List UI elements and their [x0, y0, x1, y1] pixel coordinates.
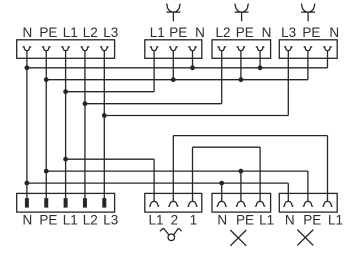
wire lamp1 PE stem: [172, 51, 174, 80]
svg-text:PE: PE: [302, 25, 320, 40]
wire switch output 1 horizontal: [193, 146, 261, 148]
lamp block 1 labels L1 PE N: [150, 25, 205, 40]
svg-text:PE: PE: [236, 213, 254, 228]
lamp block 2 terminal contact L2: [218, 47, 226, 51]
feed-in terminal contact L2: [81, 47, 89, 51]
wire lamp3 N stem: [327, 51, 329, 68]
wire lamp3 L3 stem: [287, 51, 289, 116]
feed-in terminal block (top-left box): [17, 40, 115, 59]
junction L2 bus / feed L2: [83, 101, 88, 106]
socket outlet symbol X2 below socket block 2: [297, 230, 313, 246]
lamp block 2 labels L2 PE N: [215, 25, 271, 40]
wire socket2 N stem: [287, 183, 289, 201]
lamp outlet block 1 (box): [145, 40, 202, 59]
socket block 1 terminal contact L1: [255, 201, 265, 206]
socket block 2 terminal contact N: [284, 201, 294, 206]
socket block 2 labels N PE L1: [285, 213, 343, 228]
wire socket1 L1 stem: [259, 147, 261, 201]
svg-text:N: N: [23, 25, 33, 40]
luminaire symbol E2 above lamp block 2: [235, 4, 249, 22]
junction L3 bus / feed L3: [102, 113, 107, 118]
lamp outlet block 3 (box): [279, 40, 337, 59]
socket block 2 terminal contact L1: [323, 201, 333, 206]
wire feed N vertical: [26, 51, 28, 198]
lamp block 3 terminal contact L3: [284, 47, 292, 51]
svg-text:N: N: [329, 25, 339, 40]
series switch symbol S1 below switch block: [160, 228, 182, 241]
wire feed L2 vertical: [84, 51, 86, 198]
lamp block 1 terminal contact N: [189, 47, 197, 51]
svg-text:N: N: [23, 213, 33, 228]
plug pin L1: [64, 198, 68, 208]
switch block terminal contact L1: [149, 201, 159, 206]
wire lower L1 bus horizontal: [66, 158, 155, 160]
lamp block 3 terminal contact PE: [304, 47, 312, 51]
junction N bus / feed N: [25, 65, 30, 70]
wire lamp2 PE stem: [240, 51, 242, 80]
lamp outlet block 2 (box): [212, 40, 271, 59]
wire N bus horizontal: [27, 67, 328, 69]
wire lower PE bus horizontal: [46, 170, 308, 172]
svg-text:L1: L1: [63, 213, 78, 228]
wire lamp3 PE stem: [307, 51, 309, 80]
lamp block 2 terminal contact N: [256, 47, 264, 51]
feed-in terminal contact N: [23, 47, 31, 51]
junction N bus / lamp1 N: [190, 65, 195, 70]
svg-text:N: N: [285, 213, 295, 228]
wire switch L1 stem: [153, 159, 155, 201]
plug-through block (bottom-left box): [17, 193, 115, 212]
plug pin L2: [83, 198, 87, 208]
luminaire symbol E1 above lamp block 1: [166, 4, 180, 22]
wire lamp1 N stem: [192, 51, 194, 68]
svg-text:L1: L1: [63, 25, 78, 40]
lamp block 1 terminal contact L1: [150, 47, 158, 51]
socket block 1 terminal contact N: [217, 201, 227, 206]
junction PE bus / lamp2 PE: [239, 77, 244, 82]
junction L1 bus / feed L1: [63, 89, 68, 94]
wire socket2 PE stem: [307, 171, 309, 201]
junction N bus / lamp2 N: [258, 65, 263, 70]
plug pin N: [25, 198, 29, 208]
svg-text:L2: L2: [215, 25, 230, 40]
svg-text:L1: L1: [328, 213, 343, 228]
switch block labels L1 2 1: [148, 213, 197, 228]
feed-in terminal contact PE: [42, 47, 50, 51]
junction PE bus / feed PE: [44, 77, 49, 82]
wire switch terminal 1 stem: [192, 147, 194, 201]
junction lower PE bus / socket1 PE: [239, 169, 244, 174]
svg-text:2: 2: [171, 213, 179, 228]
junction lower PE bus / feed PE: [44, 169, 49, 174]
switch block terminal contact 2: [169, 201, 179, 206]
socket block 2 terminal contact PE: [303, 201, 313, 206]
plug pin L3: [102, 198, 106, 208]
wire feed L3 vertical: [103, 51, 105, 198]
svg-text:PE: PE: [303, 213, 321, 228]
lamp block 1 terminal contact PE: [169, 47, 177, 51]
lamp block 3 labels L3 PE N: [281, 25, 339, 40]
wire L2 bus horizontal: [85, 103, 222, 105]
feed-in labels N PE L1 L2 L3: [23, 25, 119, 40]
feed-in terminal contact L1: [62, 47, 70, 51]
svg-text:L3: L3: [103, 25, 118, 40]
socket block 1 terminal contact PE: [236, 201, 246, 206]
junction lower N bus / socket1 N: [219, 181, 224, 186]
svg-text:N: N: [217, 213, 227, 228]
svg-text:PE: PE: [236, 25, 254, 40]
wire switch terminal 2 stem: [172, 136, 174, 202]
wire switch output 2 horizontal: [173, 135, 327, 137]
junction PE bus / lamp1 PE: [171, 77, 176, 82]
wire socket1 N stem: [221, 183, 223, 201]
svg-text:1: 1: [190, 213, 198, 228]
wire feed PE vertical: [45, 51, 47, 198]
wire lamp1 L1 stem: [153, 51, 155, 92]
lamp block 3 terminal contact N: [324, 47, 332, 51]
plug pin PE: [44, 198, 48, 208]
wire PE bus horizontal: [46, 79, 308, 81]
luminaire symbol E3 above lamp block 3: [301, 4, 315, 22]
socket outlet block 2 (box): [279, 193, 337, 212]
svg-text:N: N: [262, 25, 272, 40]
wire socket1 PE stem: [240, 171, 242, 201]
plug block labels N PE L1 L2 L3: [23, 213, 119, 228]
socket block 1 labels N PE L1: [217, 213, 274, 228]
wire lamp2 N stem: [259, 51, 261, 68]
svg-text:L2: L2: [83, 25, 98, 40]
lamp block 2 terminal contact PE: [237, 47, 245, 51]
wire socket2 L1 stem: [327, 136, 329, 202]
svg-text:N: N: [195, 25, 205, 40]
wire L3 bus horizontal: [104, 115, 288, 117]
svg-text:L3: L3: [103, 213, 118, 228]
wire L1 bus horizontal: [66, 91, 155, 93]
svg-text:L3: L3: [281, 25, 296, 40]
socket outlet block 1 (box): [212, 193, 271, 212]
svg-text:PE: PE: [169, 25, 187, 40]
wire lower N bus horizontal: [27, 182, 288, 184]
junction lower N bus / feed N: [25, 181, 30, 186]
junction lower L1 bus / feed L1: [63, 157, 68, 162]
wire feed L1 vertical: [65, 51, 67, 198]
wire lamp2 L2 stem: [221, 51, 223, 104]
switch block terminal contact 1: [188, 201, 198, 206]
feed-in terminal contact L3: [100, 47, 108, 51]
switch block (bottom box): [145, 193, 202, 212]
socket outlet symbol X1 below socket block 1: [230, 230, 246, 246]
svg-text:L1: L1: [150, 25, 165, 40]
svg-text:PE: PE: [39, 213, 57, 228]
svg-text:L1: L1: [259, 213, 274, 228]
svg-text:L2: L2: [83, 213, 98, 228]
svg-text:PE: PE: [39, 25, 57, 40]
svg-text:L1: L1: [148, 213, 163, 228]
